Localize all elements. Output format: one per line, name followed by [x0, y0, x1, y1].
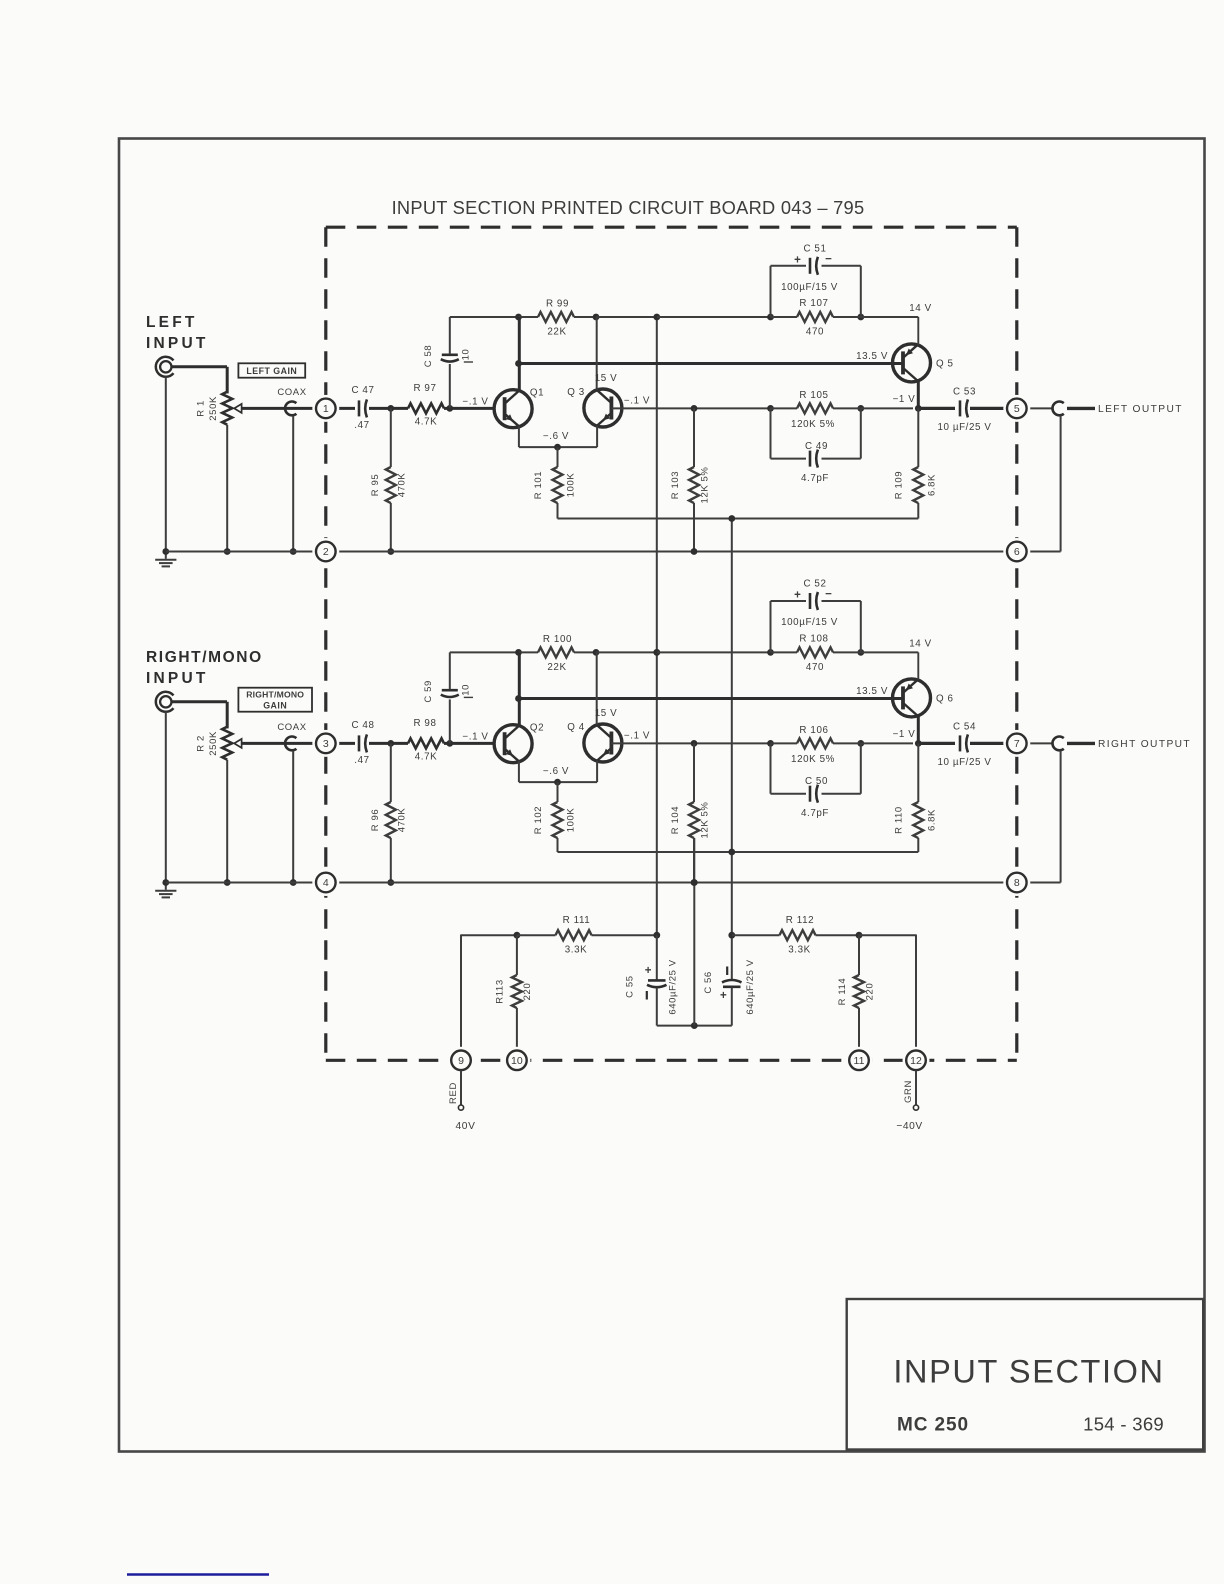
svg-text:RIGHT OUTPUT: RIGHT OUTPUT: [1098, 739, 1191, 750]
svg-text:R 104: R 104: [670, 806, 681, 834]
svg-text:−.6 V: −.6 V: [543, 766, 569, 777]
svg-text:154 - 369: 154 - 369: [1083, 1414, 1164, 1435]
svg-text:R 100: R 100: [543, 634, 572, 645]
svg-text:R 111: R 111: [563, 915, 591, 926]
svg-text:C 54: C 54: [953, 721, 976, 732]
svg-text:250K: 250K: [208, 731, 219, 756]
svg-text:40V: 40V: [456, 1121, 476, 1132]
svg-text:LEFT: LEFT: [146, 314, 198, 331]
svg-text:10: 10: [511, 1055, 523, 1067]
svg-text:Q 6: Q 6: [936, 694, 954, 705]
svg-text:7: 7: [1014, 738, 1020, 750]
svg-text:C 48: C 48: [351, 720, 374, 731]
svg-text:R 1: R 1: [196, 400, 207, 417]
svg-text:−40V: −40V: [896, 1121, 922, 1132]
svg-text:R 95: R 95: [370, 474, 381, 496]
svg-text:R 107: R 107: [799, 298, 828, 309]
svg-text:C 47: C 47: [351, 385, 374, 396]
svg-text:R113: R113: [495, 979, 506, 1003]
svg-text:100µF/15 V: 100µF/15 V: [781, 617, 838, 628]
svg-text:640µF/25 V: 640µF/25 V: [745, 959, 756, 1014]
svg-text:100K: 100K: [566, 808, 577, 833]
svg-text:Q 3: Q 3: [567, 387, 585, 398]
svg-text:470: 470: [806, 327, 824, 338]
svg-text:R 112: R 112: [786, 915, 814, 926]
svg-text:13.5 V: 13.5 V: [856, 351, 888, 362]
svg-text:5: 5: [1014, 403, 1020, 415]
svg-text:LEFT OUTPUT: LEFT OUTPUT: [1098, 404, 1183, 415]
svg-text:Q2: Q2: [530, 722, 544, 733]
svg-text:C 55: C 55: [625, 975, 636, 997]
svg-text:R 106: R 106: [799, 725, 828, 736]
svg-text:250K: 250K: [208, 396, 219, 421]
svg-text:−.6 V: −.6 V: [543, 431, 569, 442]
svg-text:−1 V: −1 V: [893, 729, 916, 740]
svg-text:R 110: R 110: [894, 806, 905, 834]
svg-text:470K: 470K: [397, 808, 408, 833]
svg-text:8: 8: [1014, 877, 1020, 889]
svg-text:Q 4: Q 4: [567, 722, 585, 733]
svg-text:C 49: C 49: [805, 441, 828, 452]
svg-text:COAX: COAX: [277, 722, 306, 733]
svg-text:−1 V: −1 V: [893, 394, 916, 405]
svg-text:13.5 V: 13.5 V: [856, 686, 888, 697]
svg-text:R 2: R 2: [196, 735, 207, 752]
svg-text:.47: .47: [354, 420, 369, 431]
svg-text:C 52: C 52: [803, 579, 826, 590]
svg-text:640µF/25 V: 640µF/25 V: [668, 959, 679, 1014]
svg-text:C 59: C 59: [423, 680, 434, 702]
svg-text:RED: RED: [448, 1082, 459, 1104]
svg-text:RIGHT/MONO: RIGHT/MONO: [146, 649, 263, 666]
svg-text:C 58: C 58: [423, 345, 434, 367]
svg-text:2: 2: [323, 546, 329, 558]
svg-text:4.7pF: 4.7pF: [801, 808, 829, 819]
svg-text:6.8K: 6.8K: [927, 474, 938, 496]
svg-text:R 99: R 99: [546, 299, 569, 310]
svg-text:R 98: R 98: [413, 718, 436, 729]
svg-text:Q 5: Q 5: [936, 359, 954, 370]
svg-text:INPUT: INPUT: [146, 670, 209, 687]
svg-text:INPUT SECTION: INPUT SECTION: [893, 1354, 1164, 1390]
svg-text:15 V: 15 V: [595, 708, 618, 719]
svg-text:−.1 V: −.1 V: [624, 395, 650, 406]
svg-text:4.7K: 4.7K: [415, 751, 438, 762]
svg-text:3: 3: [323, 738, 329, 750]
svg-text:LEFT GAIN: LEFT GAIN: [246, 366, 297, 376]
svg-text:220: 220: [865, 983, 876, 1001]
svg-text:10 µF/25 V: 10 µF/25 V: [937, 757, 991, 768]
svg-text:+: +: [720, 990, 727, 1002]
svg-text:−.1 V: −.1 V: [462, 396, 488, 407]
svg-text:R 114: R 114: [837, 978, 848, 1006]
svg-text:11: 11: [854, 1055, 865, 1067]
svg-text:470: 470: [806, 662, 824, 673]
svg-text:C 53: C 53: [953, 386, 976, 397]
svg-text:R 105: R 105: [799, 390, 828, 401]
svg-text:470K: 470K: [397, 473, 408, 498]
svg-text:+: +: [794, 254, 801, 266]
svg-text:C 50: C 50: [805, 776, 828, 787]
svg-text:COAX: COAX: [277, 387, 306, 398]
svg-text:22K: 22K: [547, 662, 566, 673]
svg-text:R 101: R 101: [533, 471, 544, 499]
svg-text:14 V: 14 V: [909, 638, 932, 649]
svg-text:−: −: [825, 253, 832, 265]
svg-text:R 109: R 109: [894, 471, 905, 499]
svg-text:3.3K: 3.3K: [565, 945, 588, 956]
svg-text:C 51: C 51: [803, 243, 826, 254]
svg-text:10: 10: [460, 684, 471, 696]
svg-text:GRN: GRN: [903, 1080, 914, 1103]
svg-text:Q1: Q1: [530, 387, 544, 398]
svg-text:C 56: C 56: [703, 971, 714, 993]
svg-text:15 V: 15 V: [595, 373, 618, 384]
svg-text:R 97: R 97: [413, 383, 436, 394]
svg-text:14 V: 14 V: [909, 303, 932, 314]
svg-text:10 µF/25 V: 10 µF/25 V: [937, 422, 991, 433]
svg-text:3.3K: 3.3K: [788, 945, 811, 956]
svg-text:+: +: [645, 965, 652, 977]
svg-text:INPUT SECTION PRINTED CIRCUIT: INPUT SECTION PRINTED CIRCUIT BOARD 043 …: [392, 197, 865, 218]
svg-text:4: 4: [323, 877, 329, 889]
svg-text:120K 5%: 120K 5%: [791, 419, 835, 430]
svg-text:INPUT: INPUT: [146, 335, 209, 352]
svg-text:6.8K: 6.8K: [927, 809, 938, 831]
svg-text:1: 1: [323, 403, 329, 415]
svg-text:GAIN: GAIN: [263, 701, 287, 711]
svg-text:R 103: R 103: [670, 471, 681, 499]
svg-text:12K 5%: 12K 5%: [700, 802, 711, 839]
svg-text:4.7K: 4.7K: [415, 416, 438, 427]
svg-text:R 96: R 96: [370, 809, 381, 831]
svg-text:12K 5%: 12K 5%: [700, 467, 711, 504]
svg-text:−.1 V: −.1 V: [462, 731, 488, 742]
svg-text:RIGHT/MONO: RIGHT/MONO: [246, 690, 304, 700]
svg-text:6: 6: [1014, 546, 1020, 558]
svg-text:R 102: R 102: [533, 806, 544, 834]
svg-text:100µF/15 V: 100µF/15 V: [781, 282, 838, 293]
svg-text:.47: .47: [354, 755, 369, 766]
svg-text:120K 5%: 120K 5%: [791, 754, 835, 765]
svg-text:+: +: [794, 590, 801, 602]
svg-text:R 108: R 108: [799, 633, 828, 644]
svg-text:−.1 V: −.1 V: [624, 730, 650, 741]
svg-text:10: 10: [460, 349, 471, 361]
svg-text:9: 9: [458, 1055, 464, 1067]
svg-text:−: −: [825, 589, 832, 601]
svg-text:220: 220: [522, 983, 533, 1001]
svg-text:100K: 100K: [566, 473, 577, 498]
svg-text:MC 250: MC 250: [897, 1415, 969, 1436]
svg-text:12: 12: [910, 1055, 922, 1067]
svg-text:4.7pF: 4.7pF: [801, 473, 829, 484]
svg-text:22K: 22K: [547, 327, 566, 338]
